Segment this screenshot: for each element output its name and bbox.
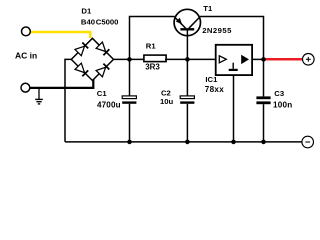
wire yellow AC live from terminal to bridge top [30,32,90,38]
wire transistor collector to output riser [200,17,264,60]
svg-text:4700u: 4700u [97,100,121,109]
svg-text:B40C5000: B40C5000 [81,17,119,26]
IC1 ground pin symbol [229,63,238,71]
terminal AC input bottom [21,83,30,92]
capacitor C1 lead top [129,59,131,96]
capacitor C1 [122,96,136,142]
node junction base / C2 [185,57,190,62]
svg-text:3R3: 3R3 [145,63,160,72]
terminal minus output [302,136,314,148]
svg-text:2N2955: 2N2955 [202,26,232,35]
wire bottom rail [65,141,302,143]
wire bridge plus to main node [114,58,144,60]
capacitor C3 [256,96,270,141]
wire red positive output [265,58,303,61]
node IC1 ground bottom [231,140,236,145]
regulator IC1 box [216,45,252,75]
node C3 bottom [261,140,266,145]
svg-text:10u: 10u [160,97,174,106]
svg-text:T1: T1 [203,4,213,13]
terminal plus output [303,54,315,66]
wire IC1 output to node [252,58,263,60]
resistor R1 [144,55,166,62]
node C1 bottom [127,140,132,145]
IC1 output arrow [241,55,249,64]
capacitor C2 lead top [186,59,188,96]
svg-text:100n: 100n [273,100,292,109]
diode D1a upper-left [75,43,88,56]
diode D1d lower-right [96,64,109,77]
svg-text:C1: C1 [97,89,108,98]
wire IC1 ground to bottom rail [233,75,235,142]
svg-text:R1: R1 [146,41,157,50]
node junction bridge plus [127,57,132,62]
svg-text:IC1: IC1 [205,75,218,84]
svg-text:D1: D1 [81,6,92,15]
svg-text:AC in: AC in [15,51,37,61]
ground [35,88,43,104]
wire AC neutral to bridge bottom [30,80,93,88]
diode D1b upper-right [96,42,109,55]
capacitor C3 lead top [263,59,265,96]
capacitor C2 [180,96,194,142]
svg-text:78xx: 78xx [205,85,224,94]
wire riser left to transistor emitter [130,17,175,60]
wire transistor base down to node [186,30,188,59]
node output junction [261,57,266,62]
IC1 input arrow [219,56,226,63]
wire bridge minus to bottom rail [65,59,71,141]
bridge rectifier D1 diamond outline [71,38,113,80]
node C2 bottom [185,140,190,145]
diode D1c lower-left [75,63,88,76]
wire R1 to IC1 input [165,58,216,60]
svg-text:C3: C3 [274,89,284,98]
transistor T1 [174,9,200,35]
terminal AC input top [22,27,31,36]
